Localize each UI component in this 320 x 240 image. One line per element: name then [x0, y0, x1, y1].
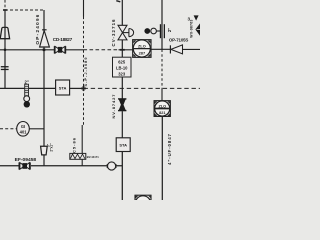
svg-text:287: 287 [139, 51, 146, 56]
small arrow marker top right [194, 15, 199, 20]
bottom right cutoff instrument box [135, 195, 151, 211]
instrument box ZLO-287 [133, 40, 152, 58]
svg-text:401: 401 [20, 130, 28, 135]
node junction (5,49.8) [4, 49, 6, 51]
wire vertical x=122.3 [121, 0, 123, 25]
instrument GI-401 line [0, 128, 17, 130]
svg-text:4"-UF-0847: 4"-UF-0847 [167, 133, 172, 165]
svg-text:2": 2" [25, 80, 29, 85]
signal dashed x=162 [161, 49, 163, 88]
valve CD-18827 [54, 46, 66, 53]
bell strainer symbol [0, 27, 9, 38]
svg-text:2": 2" [167, 28, 172, 32]
svg-text:STA: STA [59, 86, 67, 91]
svg-text:821: 821 [159, 111, 165, 115]
box STA 1 [56, 80, 70, 95]
svg-text:625: 625 [118, 59, 126, 64]
svg-text:GI: GI [21, 124, 25, 129]
orifice OP-24096 triangle [40, 31, 50, 47]
reducer trapezoid on x=44 [41, 146, 48, 155]
drain nipple 2" [25, 84, 29, 96]
instrument bubble GI-401 [17, 122, 30, 137]
wire vertical x=44 [43, 10, 45, 146]
svg-text:WX-98763: WX-98763 [189, 20, 193, 38]
wire dashed vertical top-left [4, 0, 6, 10]
svg-text:ZLO: ZLO [159, 104, 167, 108]
svg-text:EF-09458: EF-09458 [15, 157, 37, 163]
top tick [116, 1, 120, 2]
svg-text:2"x1": 2"x1" [49, 143, 53, 152]
wire vertical left x=5 [4, 10, 6, 88]
node junction (44,49.8) [43, 49, 46, 52]
svg-text:323: 323 [118, 71, 126, 76]
wire vertical x=162 top [161, 0, 163, 49]
wire horizontal line1 y=49.8 [0, 49, 54, 51]
drain open circle [24, 96, 30, 102]
pipe spec box 625/LB-10/323 [113, 57, 132, 77]
box STA 2 [116, 138, 130, 152]
svg-text:C5-86: C5-86 [72, 137, 77, 153]
valve EF-09458 [19, 162, 31, 169]
wire bottom horizontal y=165.8 [0, 165, 19, 167]
wire dashed horizontal top [5, 9, 44, 11]
wire from ZLO-287 to restriction [151, 48, 170, 50]
svg-text:OP-7105S: OP-7105S [169, 37, 189, 42]
blind flange assembly [144, 28, 150, 34]
wire horizontal line2 y=88.4 [0, 87, 56, 89]
heater zigzag box [70, 153, 86, 159]
restriction orifice OP-7105S [169, 45, 171, 53]
svg-text:STA: STA [119, 142, 127, 147]
svg-text:3: 3 [188, 17, 191, 22]
node junction (122.3,49.8) [120, 49, 125, 51]
inline circle on bottom line [106, 164, 108, 168]
drain cap filled circle [24, 101, 30, 107]
valve NV-87427 filled [118, 98, 126, 111]
control valve CV-32716 [118, 25, 134, 40]
instrument box ZLO-821 [154, 101, 170, 117]
spectacle blind bars on left line [1, 66, 9, 67]
svg-text:BV-44171: BV-44171 [87, 155, 99, 159]
svg-text:LB-10: LB-10 [116, 65, 128, 70]
svg-text:ZLO: ZLO [138, 43, 146, 48]
svg-text:OP-24096: OP-24096 [35, 14, 40, 44]
svg-text:CD-18827: CD-18827 [53, 37, 73, 42]
wire vertical x=83.5 signal [83, 0, 85, 17]
node junction (5,10) [3, 9, 7, 11]
svg-text:S-P-J-5089: S-P-J-5089 [83, 57, 88, 87]
corner valve right edge [195, 23, 200, 35]
node junction (83.5,88.4) [81, 87, 86, 89]
svg-text:NV-87427: NV-87427 [111, 94, 116, 119]
svg-text:CV-32716: CV-32716 [111, 19, 116, 47]
wire vertical x=162 bottom [161, 117, 163, 201]
